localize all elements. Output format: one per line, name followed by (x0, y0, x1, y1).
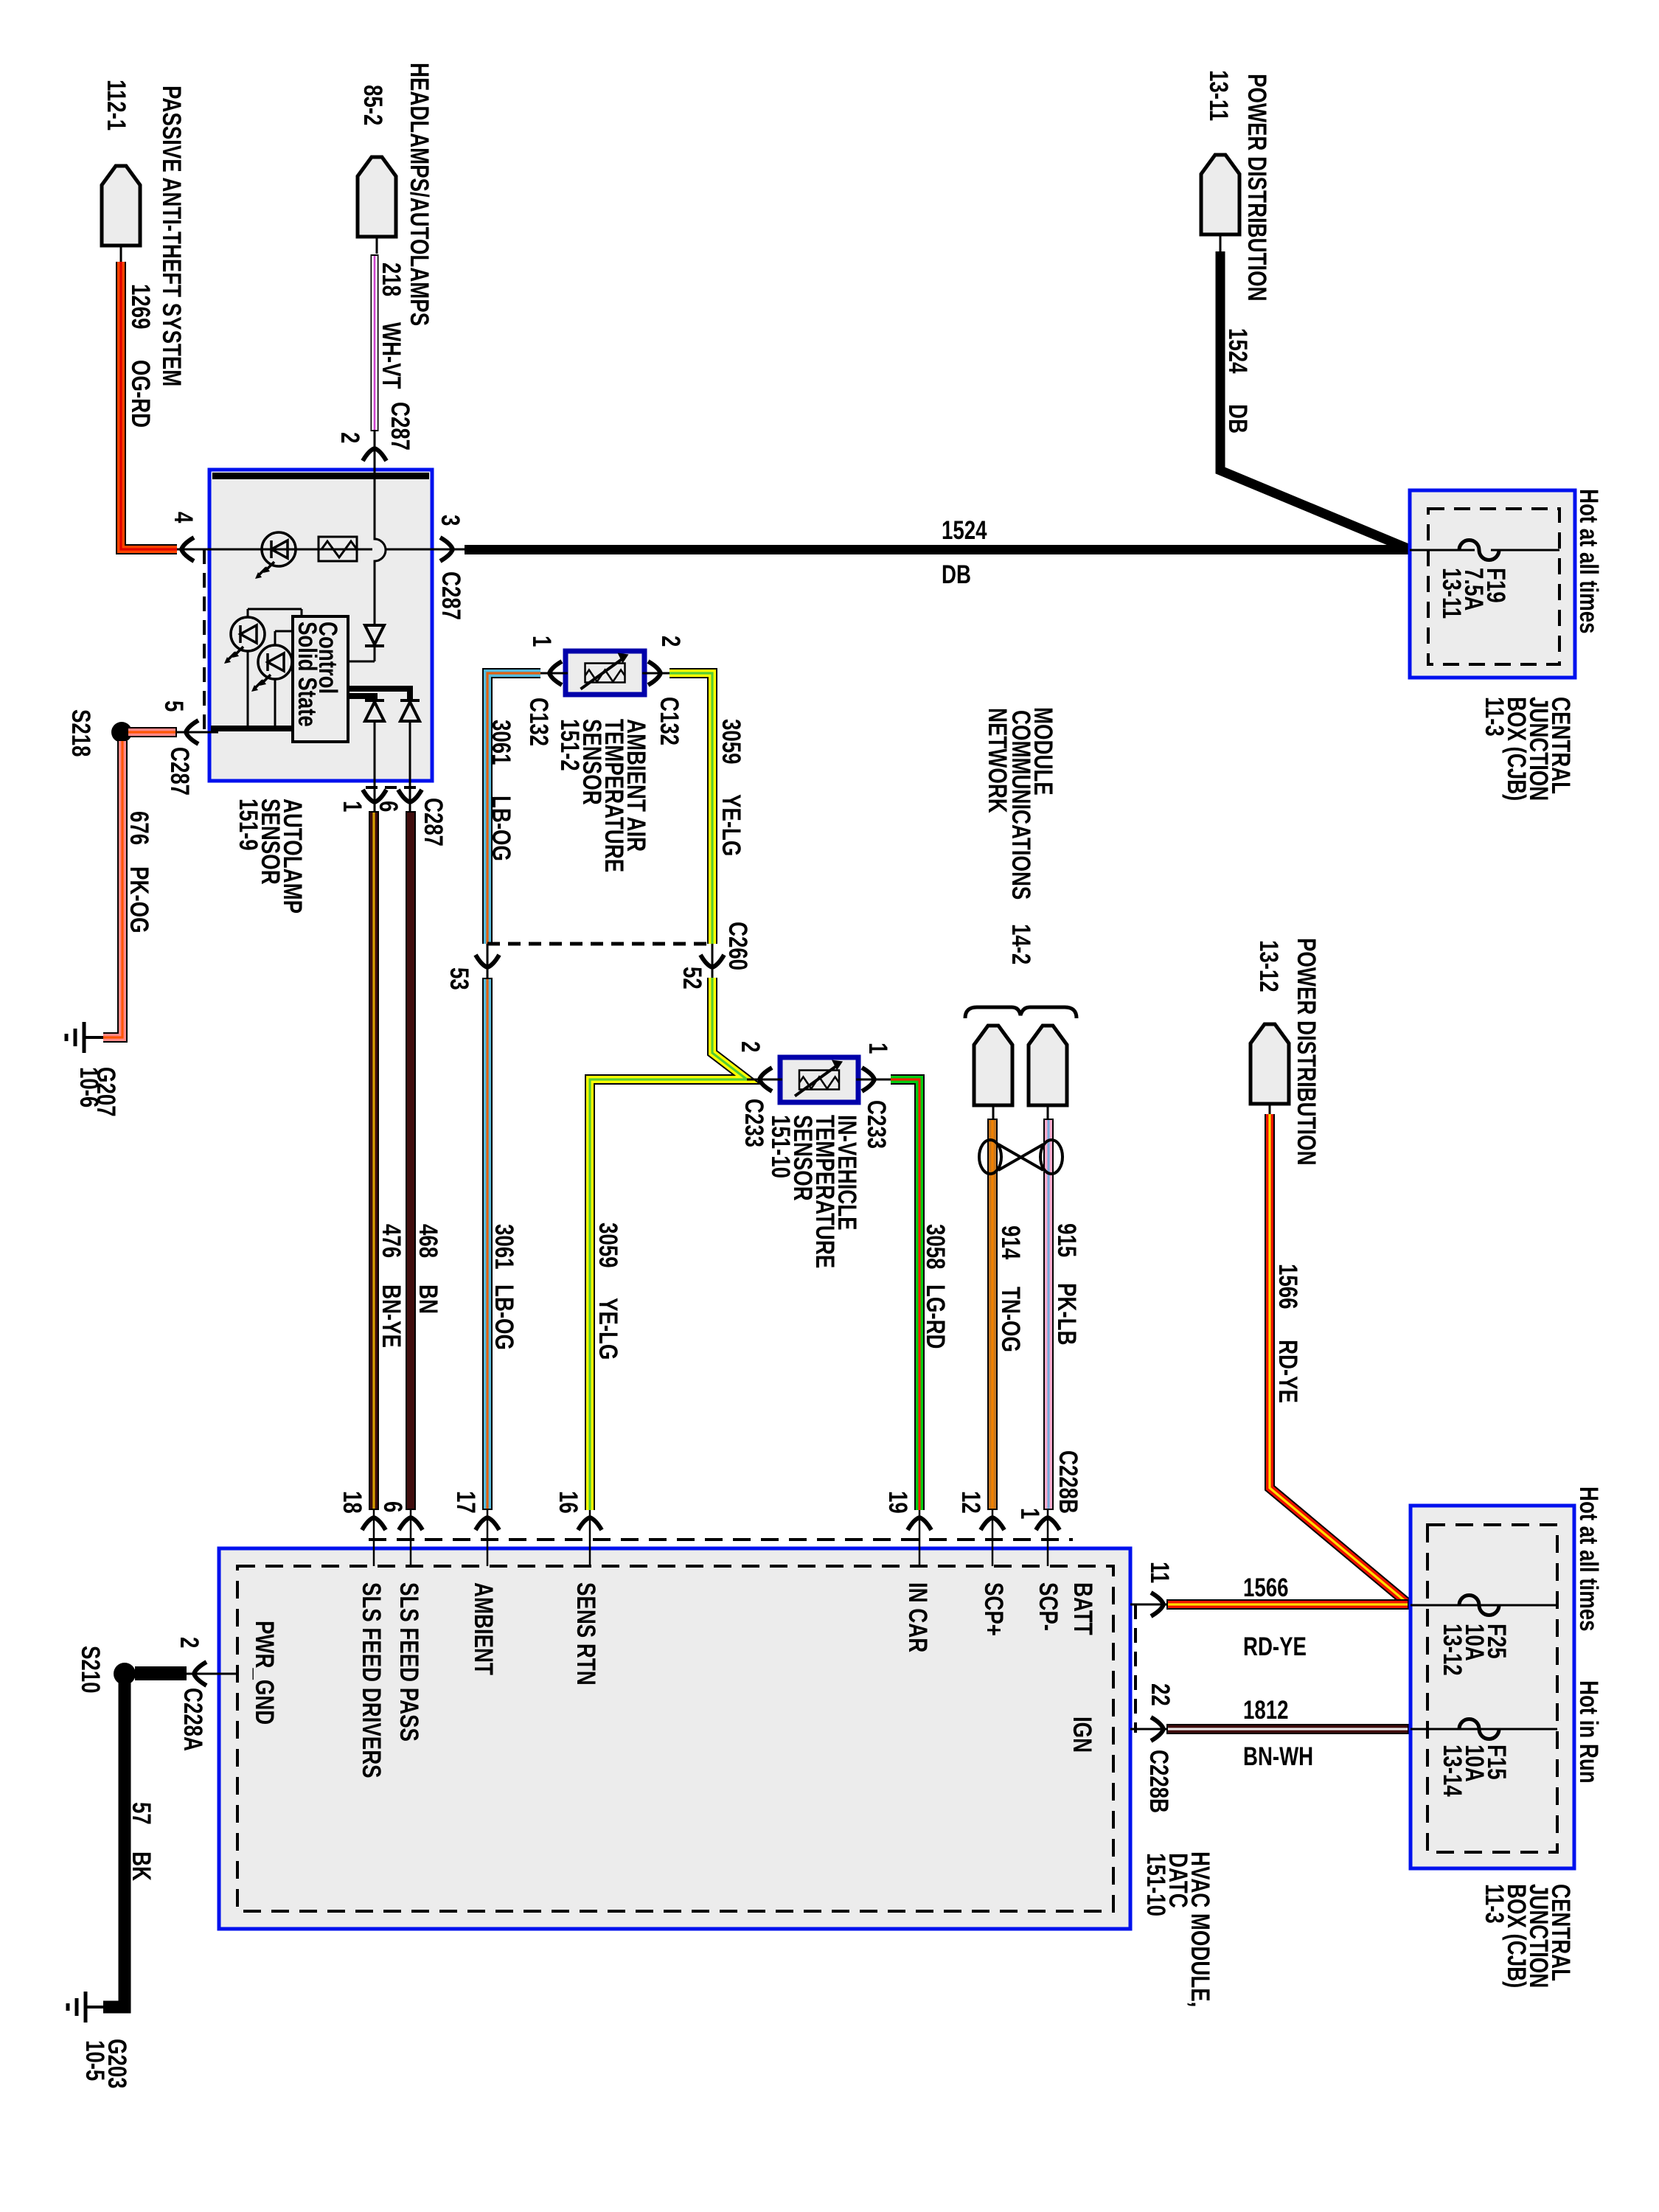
svg-text:C287: C287 (386, 402, 415, 451)
wire 3059 YE-LG lower (to in-car sensor and pin16) (590, 978, 747, 1510)
twisted pair symbol (979, 1140, 1001, 1174)
HVAC pin 12 arrow (992, 1510, 994, 1566)
svg-text:2: 2 (335, 432, 365, 443)
wire 1812 BN-WH horizontal (1166, 1724, 1409, 1734)
svg-text:2: 2 (736, 1041, 765, 1052)
svg-text:C287: C287 (165, 747, 195, 796)
svg-text:915: 915 (1052, 1223, 1082, 1257)
connector dashed line above HVAC pins (369, 1538, 1073, 1541)
fuse F25 10A (1459, 1596, 1499, 1615)
HVAC pin 16 arrow (589, 1510, 591, 1566)
svg-text:AMBIENT: AMBIENT (469, 1582, 498, 1675)
off-page connector PASSIVE ANTI-THEFT SYSTEM 112-1 (102, 166, 140, 246)
svg-text:476: 476 (377, 1224, 406, 1258)
svg-text:914: 914 (996, 1225, 1026, 1260)
autolamp sensor box 151-9 (209, 470, 432, 781)
diode D5 (up) (400, 699, 420, 702)
svg-text:LB-OG: LB-OG (490, 1284, 519, 1350)
svg-text:HEADLAMPS/AUTOLAMPS: HEADLAMPS/AUTOLAMPS (405, 63, 434, 326)
svg-text:52: 52 (678, 967, 707, 990)
wire 1524 DB thick horizontal (465, 545, 1411, 554)
splice S218 (111, 722, 132, 742)
LED D1 in autolamp sensor (262, 532, 296, 566)
LED D2 (231, 617, 265, 651)
svg-text:POWER DISTRIBUTION: POWER DISTRIBUTION (1292, 938, 1321, 1166)
svg-text:S210: S210 (76, 1646, 105, 1694)
wire 1269 OG-RD (121, 262, 177, 549)
svg-text:12: 12 (956, 1491, 986, 1514)
off-page connector HEADLAMPS/AUTOLAMPS 85-2 (358, 157, 396, 237)
svg-text:5: 5 (159, 700, 189, 712)
central junction box (CJB) F25/F15 (1411, 1506, 1574, 1868)
wire 218 WH-VT (371, 254, 379, 431)
svg-text:C132: C132 (655, 697, 684, 745)
svg-text:RD-YE: RD-YE (1243, 1632, 1307, 1661)
off-page connector POWER DISTRIBUTION 13-11 (1201, 155, 1239, 234)
svg-text:1269: 1269 (126, 284, 156, 329)
svg-text:Hot at all times: Hot at all times (1574, 489, 1604, 634)
HVAC module DATC box (219, 1548, 1130, 1929)
svg-text:1812: 1812 (1243, 1695, 1288, 1725)
svg-text:112-1: 112-1 (102, 80, 131, 131)
wire 3059 YE-LG upper (669, 673, 712, 944)
svg-text:57: 57 (127, 1802, 156, 1825)
svg-text:13-11: 13-11 (1437, 568, 1467, 619)
internal line pin4-pin3 (209, 549, 372, 551)
svg-text:1524: 1524 (1223, 328, 1253, 374)
svg-text:SCP-: SCP- (1034, 1582, 1063, 1631)
svg-text:C260: C260 (723, 922, 753, 970)
svg-text:1566: 1566 (1243, 1573, 1288, 1602)
svg-text:OG-RD: OG-RD (126, 360, 156, 428)
svg-text:LB-OG: LB-OG (487, 796, 516, 861)
svg-text:BATT: BATT (1068, 1582, 1098, 1635)
svg-text:Solid State: Solid State (293, 622, 322, 727)
svg-text:Hot at all times: Hot at all times (1574, 1486, 1604, 1632)
brace over network connectors (965, 1007, 1077, 1018)
svg-text:PK-OG: PK-OG (125, 866, 154, 933)
svg-text:WH-VT: WH-VT (377, 322, 406, 389)
svg-text:BN-YE: BN-YE (377, 1284, 406, 1348)
svg-text:C287: C287 (437, 571, 466, 620)
svg-text:DB: DB (942, 560, 971, 589)
HVAC pin 2 (PWR_GND) arrow (186, 1673, 237, 1675)
svg-text:C287: C287 (419, 798, 448, 846)
connector dashed line C287 left (pins 4-5) (203, 549, 206, 732)
svg-text:3061: 3061 (490, 1224, 519, 1269)
svg-text:1566: 1566 (1273, 1264, 1303, 1309)
svg-text:S218: S218 (66, 709, 96, 757)
pin 5 arrow + line (186, 720, 198, 744)
svg-text:676: 676 (125, 811, 154, 845)
svg-text:C132: C132 (524, 698, 554, 746)
off-page connector SCP- (network) (1029, 1026, 1067, 1105)
svg-text:13-14: 13-14 (1438, 1745, 1467, 1797)
svg-text:151-2: 151-2 (555, 719, 585, 771)
HVAC pin 19 arrow (919, 1510, 921, 1566)
svg-text:19: 19 (883, 1491, 913, 1514)
wire 468 BN (406, 811, 416, 1510)
svg-text:10-6: 10-6 (74, 1067, 104, 1107)
LED wiring to control block (247, 609, 249, 618)
svg-text:13-11: 13-11 (1204, 70, 1234, 121)
dashed connector line right of HVAC (1134, 1604, 1137, 1733)
HVAC pin 6 arrow (410, 1510, 412, 1566)
svg-text:3058: 3058 (921, 1224, 950, 1269)
wire 476 BN-YE (369, 811, 379, 1510)
solid state control block (293, 616, 348, 742)
wire 3061 LB-OG lower (482, 978, 493, 1510)
svg-text:53: 53 (445, 967, 474, 990)
svg-text:2: 2 (656, 636, 686, 647)
svg-text:1: 1 (1015, 1508, 1045, 1519)
resistor in autolamp sensor (319, 537, 357, 561)
svg-text:4: 4 (169, 512, 198, 524)
pins 1 and 6 arrows at bottom (374, 781, 376, 811)
svg-text:PK-LB: PK-LB (1052, 1283, 1082, 1345)
svg-text:YE-LG: YE-LG (594, 1298, 623, 1360)
svg-text:11-3: 11-3 (1480, 697, 1509, 737)
svg-text:16: 16 (554, 1491, 583, 1514)
svg-text:13-12: 13-12 (1438, 1624, 1467, 1676)
pin 53 arrow (476, 955, 499, 967)
svg-text:C228B: C228B (1054, 1450, 1083, 1514)
svg-text:IGN: IGN (1068, 1717, 1097, 1753)
svg-text:2: 2 (175, 1637, 204, 1648)
wire 1566 RD-YE horizontal (1166, 1599, 1409, 1610)
svg-text:PASSIVE ANTI-THEFT SYSTEM: PASSIVE ANTI-THEFT SYSTEM (157, 86, 187, 386)
svg-text:PWR_GND: PWR_GND (250, 1621, 279, 1725)
svg-text:POWER DISTRIBUTION: POWER DISTRIBUTION (1242, 74, 1272, 302)
in-vehicle temperature sensor box (780, 1057, 858, 1102)
central junction box (CJB) F19 (1410, 490, 1575, 678)
svg-text:LG-RD: LG-RD (921, 1284, 950, 1349)
HVAC pin 11 (BATT) arrow (1130, 1604, 1166, 1606)
wire jump (vertical over horizontal) (375, 479, 386, 624)
inline connector C260 dashed line (487, 942, 712, 946)
wire 914 TN-OG (987, 1119, 998, 1510)
wire 1566 RD-YE vertical+diagonal (1270, 1114, 1409, 1604)
svg-text:1524: 1524 (942, 515, 987, 545)
pin 2 arrow (363, 448, 386, 461)
svg-text:1: 1 (338, 801, 367, 812)
svg-text:10-5: 10-5 (80, 2040, 110, 2081)
wire 1524 DB thick vertical+diagonal (1220, 251, 1410, 549)
svg-text:3059: 3059 (717, 719, 746, 764)
svg-text:13-12: 13-12 (1254, 940, 1284, 992)
pin 1 arrow (C132) (540, 672, 568, 675)
svg-text:SLS FEED DRIVERS: SLS FEED DRIVERS (357, 1582, 386, 1778)
svg-text:BN-WH: BN-WH (1243, 1742, 1313, 1771)
LED D3 (258, 645, 292, 679)
wire 3058 LG-RD (891, 1079, 919, 1510)
svg-text:22: 22 (1146, 1683, 1175, 1706)
svg-text:SENS RTN: SENS RTN (571, 1582, 601, 1686)
svg-text:BN: BN (414, 1284, 443, 1314)
svg-text:YE-LG: YE-LG (717, 794, 746, 856)
svg-text:85-2: 85-2 (358, 85, 388, 125)
diode D1 (down) (365, 625, 384, 644)
svg-text:C233: C233 (740, 1099, 769, 1147)
svg-text:DB: DB (1223, 404, 1253, 434)
bottom bus (pin5) (211, 726, 293, 731)
svg-text:IN CAR: IN CAR (903, 1582, 933, 1652)
fuse line F15 (1411, 1728, 1557, 1731)
svg-text:C228B: C228B (1144, 1750, 1174, 1813)
HVAC pin 22 (IGN) arrow (1130, 1728, 1166, 1731)
svg-text:468: 468 (414, 1224, 443, 1258)
svg-text:1: 1 (527, 636, 557, 647)
svg-text:17: 17 (451, 1491, 481, 1514)
svg-text:151-10: 151-10 (766, 1115, 796, 1178)
svg-text:11-3: 11-3 (1480, 1884, 1509, 1924)
svg-text:151-9: 151-9 (234, 799, 263, 851)
svg-text:6: 6 (374, 801, 403, 812)
ground G203 (86, 2006, 105, 2008)
off-page connector SCP+ (network) (974, 1026, 1012, 1105)
fuse F15 10A (1459, 1719, 1499, 1739)
pin 3 arrow (440, 538, 453, 561)
svg-text:TN-OG: TN-OG (996, 1287, 1026, 1352)
ambient air temperature sensor box (566, 651, 644, 695)
wire 3061 LB-OG upper (487, 673, 540, 944)
off-page connector POWER DISTRIBUTION 13-12 (1251, 1024, 1289, 1104)
wire 676 PK-OG horizontal to pin5 (127, 727, 177, 737)
fuse F19 7.5A (1475, 542, 1491, 558)
pin 2 arrow (C233) (747, 1079, 782, 1081)
HVAC pin 1 arrow (1047, 1510, 1049, 1566)
svg-text:151-10: 151-10 (1141, 1853, 1171, 1916)
thick link control block to output diodes (348, 689, 410, 700)
svg-text:Hot in Run: Hot in Run (1574, 1680, 1604, 1784)
diode D4 (up) (365, 699, 384, 702)
svg-text:218: 218 (377, 262, 406, 296)
pin 2 arrow (C132) (642, 672, 669, 675)
svg-text:6: 6 (378, 1501, 408, 1512)
HVAC pin 18 arrow (373, 1510, 375, 1566)
svg-text:RD-YE: RD-YE (1273, 1340, 1303, 1403)
svg-text:SLS FEED PASS: SLS FEED PASS (394, 1582, 424, 1742)
fuse line F25 (1411, 1604, 1557, 1607)
svg-text:18: 18 (338, 1491, 367, 1514)
wire 57 BK to ground (103, 1681, 125, 2007)
svg-text:NETWORK: NETWORK (983, 708, 1012, 813)
svg-text:3059: 3059 (594, 1222, 623, 1267)
wire 915 PK-LB (1043, 1119, 1054, 1510)
svg-text:11: 11 (1145, 1562, 1175, 1583)
fuse line (1410, 549, 1559, 552)
svg-text:14-2: 14-2 (1006, 924, 1036, 964)
pin 52 arrow (700, 955, 724, 967)
pin 4 arrow (181, 538, 194, 561)
svg-text:C233: C233 (862, 1100, 891, 1149)
ground G207 (84, 1036, 103, 1039)
svg-text:C228A: C228A (178, 1688, 208, 1751)
svg-text:SCP+: SCP+ (979, 1582, 1009, 1636)
svg-text:3061: 3061 (487, 720, 516, 765)
splice S210 (135, 1666, 187, 1680)
pin 1 arrow (C233) (856, 1079, 891, 1081)
HVAC pin 17 arrow (487, 1510, 489, 1566)
svg-text:1: 1 (863, 1043, 893, 1054)
wire 676 PK-OG down to ground (103, 741, 122, 1037)
svg-text:3: 3 (436, 515, 465, 526)
svg-text:BK: BK (127, 1851, 156, 1881)
